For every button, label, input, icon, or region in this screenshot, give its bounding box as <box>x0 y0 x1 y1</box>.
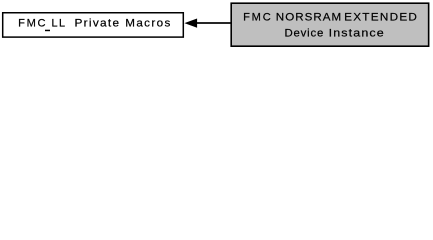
svg-text:FMC: FMC <box>18 18 46 30</box>
label underscore <box>45 30 50 32</box>
svg-text:EXTENDED: EXTENDED <box>344 12 417 24</box>
arrowhead <box>184 19 197 28</box>
wire <box>197 22 231 24</box>
svg-text:FMC: FMC <box>243 12 271 24</box>
box FMC_LL Private Macros <box>3 13 184 37</box>
svg-text:Instance: Instance <box>329 27 384 39</box>
svg-text:LL: LL <box>51 18 65 30</box>
svg-text:NORSRAM: NORSRAM <box>276 12 341 24</box>
svg-text:Device: Device <box>284 28 323 40</box>
svg-text:Private: Private <box>74 18 119 29</box>
node FMC NORSRAM EXTENDED Device Instance <box>231 3 428 46</box>
edge dependency arrow <box>184 19 230 28</box>
node FMC_LL Private Macros <box>3 13 184 37</box>
svg-text:Macros: Macros <box>125 18 170 30</box>
box FMC NORSRAM EXTENDED Device Instance <box>231 3 428 46</box>
